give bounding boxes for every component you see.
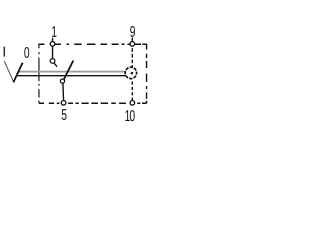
switch housing dashed box: left edge: [38, 44, 40, 104]
fixed contact circle (from terminal 1): [50, 59, 55, 64]
terminal 9 lead: [131, 38, 133, 41]
label 9: [130, 26, 135, 37]
dashed wire: lamp to terminal 10: [131, 82, 133, 101]
terminal 5 circle: [61, 101, 66, 106]
dashed wire: terminal 9 to lamp: [131, 48, 133, 67]
rocker bar top line: [19, 71, 126, 73]
lever position tick I: [4, 47, 6, 57]
lamp L (dashed circle with centre dot): [125, 67, 136, 78]
switch housing dashed box: top edge: [38, 43, 146, 45]
terminal 9 circle: [130, 42, 135, 47]
pivot contact circle: [60, 79, 64, 83]
moving contact arm: [64, 61, 74, 80]
wire: terminal 1 lead and drop to fixed contact: [52, 38, 54, 59]
label 0: [24, 47, 29, 58]
rocker bar bottom line: [17, 75, 126, 77]
label 1: [52, 26, 56, 37]
lever thick arm (actuator, pointing to 0): [13, 63, 22, 83]
switch housing dashed box: right edge: [146, 44, 148, 104]
label 10 digit 0: [130, 110, 135, 121]
switch housing dashed box: bottom edge: [39, 102, 147, 104]
lever thin arm (position I): [4, 61, 14, 82]
fixed contact tick: [54, 63, 57, 66]
label 5: [62, 109, 67, 120]
terminal 10 circle: [130, 101, 135, 106]
label 10 digit 1: [125, 110, 129, 121]
wire: pivot contact to terminal 5: [62, 83, 65, 100]
terminal 1 circle: [50, 42, 55, 47]
